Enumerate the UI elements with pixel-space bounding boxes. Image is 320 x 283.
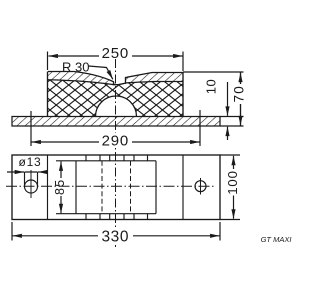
block footprint right edge [182,155,184,220]
dimension 10 upper arrow [227,82,229,116]
dimension 70 line [240,72,242,126]
inner rectangle right edge [155,161,157,214]
svg-text:ø13: ø13 [18,155,41,169]
dimension o13 right arrow [38,171,47,173]
dimension 330 line right arrow [132,235,220,237]
dimension 290 extension right [199,110,201,146]
svg-text:70: 70 [231,85,246,102]
right hole circle [195,181,206,192]
bottom arch dome (clear) [96,96,137,117]
top surface extension line right [183,71,244,73]
block footprint left edge [47,155,49,220]
block right edge [182,73,184,117]
dimension 70 bottom arrow [240,104,242,125]
hidden line left [101,161,103,214]
wave rib line top [56,160,156,162]
svg-text:10: 10 [204,79,219,94]
waved top band (single hatch) right part [126,73,184,84]
dimension 290 extension left [30,111,32,146]
svg-text:R 30: R 30 [62,60,89,75]
dimension 85 bottom arrow [60,196,62,214]
svg-text:GT MAXI: GT MAXI [261,235,292,244]
right hole vertical centerline [200,178,202,195]
base plate cross-section (hatched) [12,117,220,127]
left slot hole circle [25,180,38,193]
dimension 250 line right arrow [131,55,183,57]
dimension 330 line left arrow [13,235,100,237]
svg-text:85: 85 [53,179,67,196]
dimension o13 left arrow [7,171,24,173]
block left edge [47,72,49,117]
dimension 100 bottom arrow [233,196,235,219]
waved top band (single hatch) left wedge [48,72,114,85]
dimension 70 top arrow [240,73,242,84]
dimension 100 extension top [220,154,240,156]
wave rib ticks bottom [86,214,148,220]
dimension 85 top arrow [60,162,62,179]
dimension text 70 [234,84,248,104]
left slot vertical centerline [30,170,32,198]
svg-text:250: 250 [102,45,129,62]
dimension 250 extension left [47,52,49,71]
plate outline plan view [12,155,220,220]
dimension text 85 [55,178,67,196]
vertical centerline [115,59,117,247]
dimension 290 line right arrow [132,141,200,143]
svg-text:330: 330 [101,229,129,246]
hidden line right [130,161,132,214]
dimension text 100 [227,170,240,196]
dimension 100 top arrow [233,156,235,169]
dimension 250 extension right [182,52,184,72]
dimension 330 extension left [11,222,13,241]
plate bottom extension line right [220,125,244,127]
svg-text:100: 100 [225,170,240,194]
wave rib line bottom [56,213,156,215]
inner wave line right [126,82,184,84]
R30 leader line [89,66,113,79]
inner wave line left [48,80,114,85]
dimension 330 extension right [219,222,221,241]
dimension text 290 [99,133,132,147]
inner rectangle left edge [75,161,77,214]
dimension text 330 [98,228,133,243]
plate top extension line right [220,116,244,118]
dimension 290 line left arrow [32,141,100,143]
horizontal centerline [6,185,215,187]
dimension 250 line left arrow [49,55,101,57]
top wave profile outline [48,72,183,85]
left slot side walls [25,172,38,187]
rubber block body cross-section (cross-hatched) [48,80,183,117]
dimension text 250 [99,46,132,59]
dimension 10 lower arrow [227,127,229,140]
svg-text:290: 290 [102,133,129,150]
wave rib ticks top [86,155,148,161]
dimension 100 extension bottom [220,219,240,221]
